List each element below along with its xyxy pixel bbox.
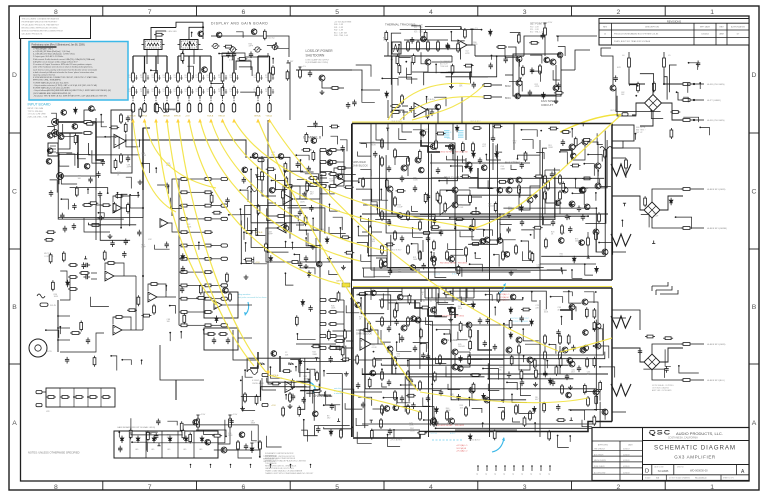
wire — [358, 397, 372, 406]
resistor R225 — [570, 164, 580, 167]
scale row — [665, 475, 667, 481]
zone tick — [9, 132, 21, 134]
wire — [356, 418, 368, 426]
wire — [58, 133, 70, 149]
wire — [381, 189, 388, 200]
wire — [426, 97, 428, 103]
resistor R228 — [460, 175, 470, 178]
transistor Q30 — [431, 256, 437, 262]
wire vertical feeds A — [420, 288, 422, 302]
cyan note block — [444, 130, 464, 138]
wire — [191, 33, 193, 38]
capacitor C127 — [316, 426, 320, 433]
channel A outline — [353, 287, 612, 289]
wire — [96, 121, 104, 123]
resistor R119 — [120, 153, 123, 164]
resistor R226 — [362, 177, 365, 188]
resistor R341 — [312, 150, 315, 161]
capacitor stub — [181, 75, 183, 80]
yellow wire — [270, 120, 559, 351]
bus wire — [370, 124, 372, 270]
transistor Q56 — [221, 447, 227, 453]
wire — [450, 291, 547, 309]
capacitor C110 — [664, 366, 668, 373]
resistor R352 — [316, 371, 319, 382]
feedback — [113, 196, 130, 208]
wire — [176, 22, 203, 27]
yellow arrowhead — [232, 119, 236, 123]
resistor R153 — [60, 396, 70, 399]
capacitor C19 — [507, 212, 511, 219]
transistor Q83 — [397, 213, 403, 219]
resistor R171 — [328, 335, 338, 338]
svg-text:b- 0 (RL08) | 274 Watts (RailQ: b- 0 (RL08) | 274 Watts (RailQue) | 1 (T… — [33, 53, 75, 56]
wire — [663, 52, 665, 56]
wire — [509, 81, 522, 91]
wire — [440, 190, 452, 215]
wire — [397, 342, 412, 351]
transistor Q104 — [393, 405, 399, 411]
svg-text:6: 6 — [242, 484, 246, 491]
svg-text:100R: 100R — [329, 181, 334, 183]
wire — [241, 221, 250, 264]
wire — [692, 379, 704, 381]
svg-text:DWG NO: DWG NO — [677, 466, 684, 468]
transistor Q95 — [411, 316, 417, 322]
transistor Q82 — [584, 204, 590, 210]
wire — [561, 69, 575, 71]
wire — [297, 180, 307, 184]
capacitor stub — [261, 75, 263, 80]
svg-text:B (FORWARD BLK 2/3/16): B (FORWARD BLK 2/3/16) — [306, 61, 329, 64]
diode D19 — [572, 256, 576, 263]
svg-text:+15V: +15V — [185, 116, 190, 118]
resistor R67 — [394, 196, 397, 207]
wire — [383, 294, 396, 301]
diode D37 — [301, 299, 305, 306]
transistor Q93 — [510, 294, 516, 300]
wire — [652, 370, 683, 380]
transistor Q79 — [497, 187, 503, 193]
wire — [519, 195, 530, 210]
wire — [463, 156, 473, 164]
wire — [210, 56, 212, 73]
wire — [247, 358, 320, 371]
resistor R259 — [420, 306, 430, 309]
wire — [616, 88, 661, 111]
wire — [582, 420, 592, 427]
wire — [454, 355, 456, 364]
resistor R220 — [472, 142, 475, 153]
wire — [588, 302, 598, 323]
svg-text:P2: P2 — [430, 301, 432, 303]
wire — [511, 165, 517, 170]
wire — [46, 330, 59, 338]
wire — [421, 140, 431, 147]
wire — [151, 28, 176, 40]
pot circle — [29, 339, 47, 357]
wire — [357, 432, 372, 444]
resistor R174 — [229, 292, 232, 302]
transistor Q97 — [441, 339, 447, 345]
wire — [149, 432, 151, 434]
connector J38 — [246, 260, 252, 263]
wire — [320, 184, 327, 186]
waveform W4 — [611, 316, 631, 328]
resistor R109 — [502, 410, 505, 421]
svg-text:EFF. DATE: EFF. DATE — [700, 26, 711, 29]
resistor R306 — [401, 94, 404, 105]
svg-text:21/B +DB 2/3B + 7/4B: 21/B +DB 2/3B + 7/4B — [28, 116, 48, 118]
resistor R321 — [127, 309, 137, 312]
resistor R298 — [424, 30, 427, 41]
resistor R55 — [518, 184, 521, 195]
wire — [166, 98, 168, 104]
resistor R213 — [436, 132, 446, 135]
yellow wire — [560, 338, 612, 352]
resistor R337 — [298, 406, 301, 417]
svg-text:100K: 100K — [54, 296, 59, 298]
wire — [276, 43, 289, 48]
capacitor C122 — [352, 100, 356, 107]
wire — [419, 252, 421, 260]
svg-text:R95 0R22: R95 0R22 — [455, 425, 465, 427]
svg-text:0.1UF: 0.1UF — [653, 215, 659, 217]
resistor R247 — [595, 230, 598, 241]
diode D4 — [168, 436, 172, 443]
wire — [376, 258, 387, 263]
resistor R130 — [179, 191, 189, 194]
transistor Q92 — [397, 294, 403, 300]
ground — [310, 245, 315, 250]
wire — [380, 155, 588, 216]
capacitor C94 — [411, 402, 415, 409]
capacitor C53 — [96, 171, 100, 178]
capacitor C68 — [180, 287, 184, 294]
svg-text:2K2: 2K2 — [397, 356, 400, 358]
resistor R192 — [127, 203, 130, 214]
wire — [519, 404, 534, 413]
wire — [436, 303, 448, 315]
wire — [571, 410, 585, 420]
node N17 — [623, 203, 626, 206]
wire — [488, 180, 493, 188]
wire — [599, 243, 613, 255]
svg-text:REV: REV — [603, 27, 608, 29]
wire — [402, 111, 408, 113]
wire — [407, 68, 418, 79]
zone tick — [9, 363, 21, 365]
wire — [425, 109, 438, 118]
title block background — [592, 428, 749, 481]
wire — [155, 168, 157, 173]
transistor Q111 — [239, 432, 245, 438]
svg-text:330R: 330R — [410, 430, 415, 432]
capacitor C125 — [302, 397, 306, 404]
svg-text:INPUT BOARD: INPUT BOARD — [28, 103, 52, 107]
wire — [395, 368, 397, 374]
ground — [533, 382, 538, 387]
svg-text:PRODUCTION RELEASED ECO 9779: PRODUCTION RELEASED ECO 9779 REV COL.83 — [614, 33, 658, 36]
op-amp U13 — [285, 382, 295, 393]
wire — [406, 62, 411, 75]
transistor Q66 — [46, 159, 52, 165]
wire — [211, 84, 223, 91]
diode D11 — [269, 255, 273, 262]
wire — [144, 98, 146, 104]
resistor R243 — [369, 225, 372, 236]
resistor R141 — [203, 257, 213, 260]
connector pin J3 — [154, 104, 157, 113]
jack J3 — [48, 143, 58, 156]
svg-text:a- 0 (RL08) | 85 Watts (RailQu: a- 0 (RL08) | 85 Watts (RailQue) | 1 (4 … — [33, 50, 71, 53]
wire — [111, 356, 117, 371]
wire — [518, 62, 520, 80]
transistor Q44 — [593, 389, 599, 395]
wire — [381, 369, 383, 373]
capacitor C31 — [400, 396, 404, 403]
svg-text:SIG-IN: SIG-IN — [50, 305, 56, 307]
yellow wire — [200, 120, 360, 261]
capacitor stub — [170, 75, 172, 80]
wire — [683, 97, 688, 102]
diode D28 — [435, 406, 439, 413]
transistor Q72 — [269, 187, 275, 193]
wire — [498, 407, 505, 417]
resistor R126 — [114, 316, 124, 319]
wire — [596, 235, 602, 252]
resistor R172 — [328, 347, 338, 350]
wire — [555, 65, 557, 85]
diode D29 — [533, 406, 537, 413]
resistor R235 — [424, 192, 427, 203]
wire — [329, 187, 331, 192]
resistor R222 — [582, 139, 592, 142]
svg-text:MECH CHKVW: MECH CHKVW — [594, 460, 606, 462]
wire — [413, 130, 423, 138]
resistor R315 — [670, 128, 673, 139]
wire — [519, 86, 556, 95]
resistor R4 — [143, 86, 146, 98]
wire — [272, 59, 274, 64]
resistor R110 — [515, 404, 518, 415]
resistor R203 — [196, 297, 206, 300]
svg-text:BF91: BF91 — [505, 97, 511, 100]
wire — [222, 56, 224, 73]
resistor R232 — [562, 181, 565, 192]
resistor R282 — [555, 365, 558, 376]
svg-text:B RLY: B RLY — [458, 135, 464, 137]
op-amp U14 — [214, 301, 222, 310]
transistor Q1 — [319, 75, 325, 81]
resistor R187 — [114, 159, 117, 170]
capacitor stub — [203, 75, 205, 80]
transistor Q102 — [566, 392, 572, 398]
wire — [96, 136, 104, 138]
resistor R316 — [644, 196, 647, 207]
connector pin J22 — [221, 257, 228, 260]
wire — [306, 238, 317, 246]
wire — [386, 155, 440, 233]
wire — [301, 430, 307, 442]
resistor R318 — [663, 337, 673, 340]
svg-text:100K: 100K — [544, 312, 549, 314]
resistor R278 — [593, 357, 596, 368]
wire — [503, 208, 596, 252]
resistor R245 — [430, 226, 440, 229]
wire — [392, 49, 461, 60]
capacitor C105 — [556, 83, 560, 90]
signal source W1 — [247, 187, 257, 192]
resistor R10 — [177, 86, 180, 98]
transistor Q36 — [469, 387, 475, 393]
svg-text:6 SYNCHRONOUS EL CONNECTOR CI: 6 SYNCHRONOUS EL CONNECTOR CIRCUIT, CIRC… — [33, 76, 98, 79]
svg-text:LOSS-OF-POWER: LOSS-OF-POWER — [306, 49, 334, 53]
resistor R275 — [533, 358, 536, 369]
wire — [182, 50, 184, 64]
node N21 — [315, 358, 318, 361]
wire — [178, 179, 180, 192]
yellow wire — [353, 286, 612, 288]
resistor R129 — [203, 178, 213, 181]
transistor Q14 — [516, 177, 522, 183]
wire — [58, 119, 124, 219]
wire — [266, 253, 290, 262]
resistor R179 — [224, 45, 234, 48]
wire — [373, 409, 383, 416]
wire — [699, 83, 701, 89]
resistor R254 — [358, 293, 368, 296]
wire — [178, 55, 211, 57]
transistor Q5 — [516, 80, 522, 86]
wire — [426, 317, 432, 324]
resistor R184 — [109, 126, 119, 129]
resistor R183 — [85, 122, 95, 125]
wire — [544, 37, 546, 56]
svg-text:ACK: ENGR: ACK: ENGR — [594, 453, 604, 456]
capacitor C102 — [409, 106, 413, 113]
zone tick — [383, 6, 385, 16]
transistor Q80 — [579, 188, 585, 194]
diode D18 — [433, 217, 437, 224]
wire — [189, 191, 203, 193]
wire — [543, 148, 547, 225]
svg-text:D: D — [12, 72, 17, 79]
connector J28 — [320, 148, 326, 151]
wire — [525, 344, 540, 353]
resistor R29 — [427, 40, 430, 52]
resistor R150 — [179, 324, 189, 327]
wire — [187, 66, 193, 78]
wire — [450, 255, 466, 262]
wire — [130, 195, 139, 226]
wire — [99, 213, 105, 217]
resistor R302 — [412, 54, 415, 65]
resistor R23 — [268, 71, 271, 83]
yellow wire — [258, 120, 418, 391]
wire — [362, 368, 376, 375]
wire — [266, 436, 281, 447]
wire — [401, 385, 416, 389]
wire — [330, 87, 344, 89]
wire — [371, 202, 377, 210]
wire — [90, 297, 109, 307]
wire — [251, 157, 290, 238]
connector J32 — [320, 298, 326, 301]
wire — [388, 435, 401, 447]
wire — [534, 423, 536, 431]
wire — [484, 230, 492, 236]
resistor R76 — [446, 250, 449, 261]
ground — [138, 180, 143, 185]
svg-text:AEM: AEM — [719, 33, 724, 36]
resistor R256 — [443, 292, 453, 295]
wire — [382, 78, 398, 85]
wire — [435, 268, 446, 277]
wire — [213, 284, 221, 286]
capacitor C70 — [307, 166, 311, 173]
connector pin J4 — [165, 104, 168, 113]
wire — [678, 92, 683, 100]
wire — [338, 173, 344, 175]
wire — [199, 98, 201, 104]
wire — [612, 348, 644, 362]
capacitor C76 — [520, 162, 524, 169]
divider — [145, 431, 147, 458]
resistor R39 — [663, 56, 666, 69]
transistor Q8 — [431, 144, 437, 150]
node N20 — [307, 379, 310, 382]
svg-text:B52 : TRA, 1->B: B52 : TRA, 1->B — [530, 30, 544, 33]
resistor R283 — [368, 377, 371, 388]
svg-text:+VCC(A) LO: +VCC(A) LO — [456, 444, 468, 447]
bus wire — [296, 343, 336, 345]
resistor R32 — [390, 111, 401, 114]
svg-text:QSC AUDIO PRODUCTS.: QSC AUDIO PRODUCTS. — [22, 33, 44, 36]
wire — [346, 340, 353, 342]
svg-text:ALCOHOL/VW: ALCOHOL/VW — [594, 471, 606, 474]
capacitor C106 — [528, 90, 532, 97]
svg-text:GAIN BLOCK: GAIN BLOCK — [352, 164, 368, 168]
svg-text:each shortcut cross-country an: each shortcut cross-country and ensures … — [33, 68, 97, 71]
capacitor C67 — [181, 266, 185, 273]
wire — [301, 389, 319, 392]
resistor R195 — [49, 253, 52, 264]
resistor R103 — [381, 404, 384, 415]
wire — [259, 451, 261, 458]
yellow wire — [178, 120, 266, 372]
wire — [299, 358, 305, 409]
wire — [330, 346, 340, 351]
wire — [329, 270, 338, 274]
wire — [594, 329, 603, 341]
connector pin J7 — [198, 104, 201, 113]
wire vertical — [142, 190, 144, 330]
resistor R148 — [179, 311, 189, 314]
wire — [435, 140, 437, 147]
svg-text:B: B — [752, 304, 757, 311]
wire — [219, 54, 232, 61]
wire — [141, 360, 143, 364]
diode D16 — [469, 166, 473, 173]
capacitor C60 — [137, 230, 141, 237]
capacitor C42 — [126, 156, 130, 163]
transistor Q99 — [567, 358, 573, 364]
svg-text:SHEET 1 OF 1: SHEET 1 OF 1 — [723, 478, 734, 480]
svg-text:220R: 220R — [228, 435, 233, 437]
capacitor C18 — [439, 230, 443, 237]
capacitor stub — [214, 75, 216, 80]
